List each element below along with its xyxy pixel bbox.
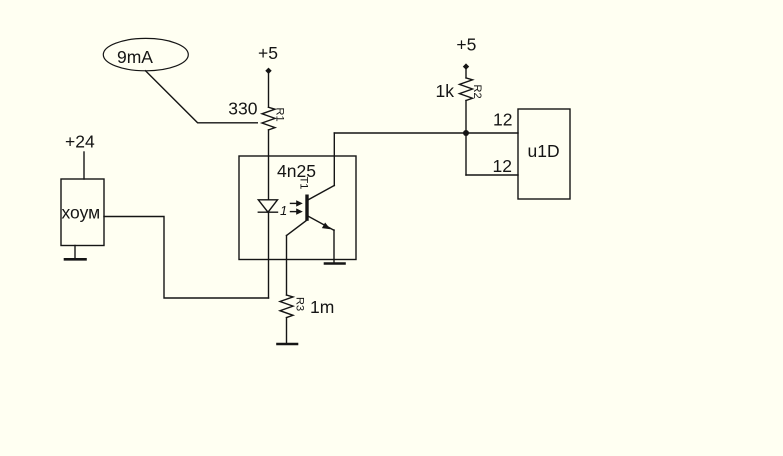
svg-text:12: 12	[493, 110, 512, 130]
svg-text:330: 330	[228, 99, 257, 119]
svg-text:u1D: u1D	[528, 141, 560, 161]
svg-text:+5: +5	[456, 35, 476, 55]
svg-text:+24: +24	[65, 132, 95, 152]
svg-text:R3: R3	[294, 297, 306, 311]
svg-text:1m: 1m	[310, 297, 334, 317]
svg-text:R2: R2	[471, 85, 483, 99]
svg-text:+5: +5	[258, 43, 278, 63]
svg-text:1: 1	[280, 203, 287, 218]
svg-text:R1: R1	[274, 108, 286, 122]
svg-text:хоум: хоум	[62, 203, 101, 223]
svg-text:12: 12	[493, 156, 512, 176]
svg-text:1k: 1k	[436, 81, 455, 101]
svg-text:9mA: 9mA	[117, 47, 153, 67]
svg-text:T1: T1	[298, 177, 310, 190]
